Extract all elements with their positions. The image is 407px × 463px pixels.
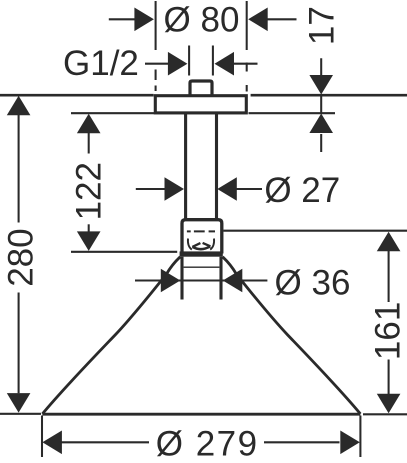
connector internal valve right wing [203,243,211,246]
pipe wall right [215,113,218,219]
dim Ø279 extension right [359,416,361,458]
cone profile left [42,257,180,414]
dim 280 bottom extension [0,413,41,415]
G1/2 stub [190,81,212,95]
dim 161 line lower [388,360,390,395]
dim Ø80 line right [268,18,297,20]
arrow Ø80 right [248,8,268,32]
dim G1/2 line right [234,63,258,65]
ceiling line right [251,94,407,97]
dim G1/2 extension right [212,46,214,76]
connector band [180,251,223,256]
plate bottom extension right [249,112,336,114]
plate bottom extension left [71,112,154,114]
arrow Ø27 right [217,177,237,201]
dim Ø279 line right [264,441,340,443]
dim 122 line upper [88,133,90,154]
dim 161 top extension [224,230,407,232]
dim 280 line upper [18,115,20,223]
arrow 122 down [77,231,101,251]
dim 122 bottom extension [71,251,177,253]
arrow 280 down [7,393,31,413]
arrow Ø279 right [340,431,360,455]
svg-text:17: 17 [303,6,342,45]
arrow 161 up [377,232,401,252]
arrow 280 up [7,96,31,116]
neck groove line [184,266,220,268]
svg-text:161: 161 [369,302,407,360]
dim 161 line upper [388,251,390,302]
connector internal valve bottom [193,246,211,249]
svg-text:Ø 27: Ø 27 [264,171,340,210]
arrow Ø27 left [165,177,185,201]
connector box [182,220,222,254]
dim Ø279 extension left [41,416,43,458]
dim 17 line [320,58,322,152]
dim Ø27 line right [237,188,263,190]
escutcheon plate [155,96,246,113]
svg-text:G1/2: G1/2 [63,44,139,83]
neck wall right [219,257,222,300]
connector internal dashed seat line [187,230,215,232]
dim Ø80 extension line left [155,1,157,91]
svg-text:122: 122 [70,162,109,220]
arrow Ø279 left [42,431,62,455]
ceiling line left [0,94,154,97]
svg-text:280: 280 [2,228,41,286]
arrow G1/2 right [215,52,235,76]
cone profile right [223,257,361,414]
dim 280 line lower [18,293,20,394]
dim Ø36 line [135,279,267,281]
dim Ø80 extension line right [246,1,248,92]
svg-text:Ø 36: Ø 36 [275,264,351,303]
arrow 161 down [377,394,401,414]
arrow Ø36 left [161,269,181,293]
connector internal left curve [188,239,192,250]
svg-text:Ø 279: Ø 279 [156,424,259,463]
arrow 17 down [309,75,333,95]
dim Ø279 line left [62,441,150,443]
arrow 17 up [309,114,333,134]
arrow G1/2 left [168,52,188,76]
dim 122 line lower [88,224,90,231]
svg-text:Ø 80: Ø 80 [164,1,240,40]
connector internal valve left wing [192,243,200,247]
arrow Ø36 right [223,269,243,293]
arrow 122 up [77,114,101,134]
connector internal right curve [210,239,214,250]
pipe wall left [184,113,187,219]
neck wall left [180,257,183,300]
dim 161 bottom extension [363,413,407,415]
arrow Ø80 left [134,8,154,32]
dim Ø27 line left [136,188,165,190]
dim G1/2 extension left [188,46,190,76]
rim bottom [42,413,360,416]
dim G1/2 line left [145,63,169,65]
dim Ø80 line left [109,18,135,20]
